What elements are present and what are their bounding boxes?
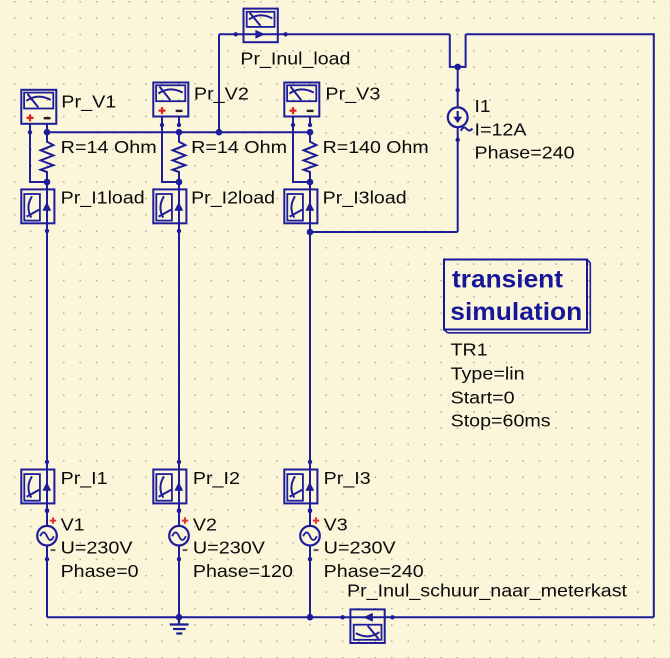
junction node R3 bottom — [307, 179, 314, 186]
current probe Pr_I3load — [284, 180, 317, 234]
resistor R3 zigzag — [304, 132, 317, 182]
svg-text:Pr_I3load: Pr_I3load — [323, 187, 407, 208]
wire bottom bus — [47, 616, 654, 618]
wire top bus from node A to dip — [219, 33, 450, 35]
wire from Pr_I3load to I1 — [310, 231, 458, 233]
current probe Pr_I1load — [21, 180, 54, 234]
svg-text:I=12A: I=12A — [475, 119, 527, 139]
current probe Pr_I2load — [153, 180, 186, 234]
current probe Pr_I2 — [153, 460, 186, 514]
resistor R1 zigzag — [41, 132, 54, 182]
junction node bus1-drop — [216, 129, 223, 136]
svg-text:Pr_I1load: Pr_I1load — [61, 187, 145, 208]
svg-text:V1: V1 — [61, 514, 85, 534]
svg-text:R=14 Ohm: R=14 Ohm — [61, 137, 157, 157]
svg-text:Phase=120: Phase=120 — [193, 561, 293, 581]
svg-text:Start=0: Start=0 — [451, 387, 515, 407]
svg-text:Type=lin: Type=lin — [451, 363, 525, 383]
svg-text:Pr_V2: Pr_V2 — [194, 84, 249, 105]
wire column3 plus lead — [293, 125, 310, 183]
junction node col3-I1 wire — [307, 229, 314, 236]
svg-text:V3: V3 — [324, 514, 348, 534]
svg-text:R=140 Ohm: R=140 Ohm — [323, 137, 429, 157]
svg-text:transient: transient — [452, 265, 564, 293]
svg-text:Pr_Inul_schuur_naar_meterkast: Pr_Inul_schuur_naar_meterkast — [347, 580, 627, 601]
svg-text:Phase=240: Phase=240 — [475, 143, 575, 163]
voltmeter probe Pr_V1 — [21, 90, 56, 135]
wire bus1 horizontal — [47, 131, 310, 133]
wire column1 plus lead — [30, 131, 47, 182]
wire top right to corner — [466, 34, 654, 617]
voltmeter probe Pr_V2 — [153, 83, 188, 128]
junction node R1 bottom — [44, 179, 51, 186]
svg-text:Phase=0: Phase=0 — [61, 561, 139, 581]
junction node bottom bus ground — [176, 614, 183, 621]
svg-text:simulation: simulation — [450, 298, 582, 326]
current source I1 — [448, 88, 473, 142]
svg-text:R=14 Ohm: R=14 Ohm — [191, 137, 287, 157]
svg-text:Pr_V1: Pr_V1 — [61, 92, 116, 113]
ammeter probe Pr_Inul_schuur_naar_meterkast (rotated 180) — [340, 609, 394, 643]
wire column2 main vertical — [178, 182, 180, 617]
svg-text:Pr_I2: Pr_I2 — [193, 468, 240, 489]
wire column1 main vertical — [46, 182, 48, 617]
junction node bus1-col3 — [307, 129, 314, 136]
svg-text:U=230V: U=230V — [324, 538, 396, 558]
svg-text:Phase=240: Phase=240 — [324, 561, 424, 581]
voltage source V3 — [300, 508, 320, 561]
resistor R2 zigzag — [173, 132, 186, 182]
wire I1 column — [457, 67, 459, 232]
svg-text:Pr_V3: Pr_V3 — [325, 84, 380, 105]
junction node bus1-col1 — [44, 129, 51, 136]
svg-text:U=230V: U=230V — [61, 538, 133, 558]
wire column3 main vertical — [309, 182, 311, 617]
ammeter probe Pr_Inul_load — [234, 9, 288, 43]
current probe Pr_I1 — [21, 460, 54, 514]
current probe Pr_I3 — [284, 460, 317, 514]
svg-text:Pr_I1: Pr_I1 — [61, 468, 108, 489]
svg-text:I1: I1 — [475, 96, 491, 116]
junction node R2 bottom — [176, 179, 183, 186]
svg-text:Pr_I3: Pr_I3 — [324, 468, 371, 489]
wire drop from top bus to node bus1 — [218, 34, 220, 132]
svg-text:TR1: TR1 — [451, 340, 488, 360]
wire column2 plus lead — [162, 125, 179, 183]
voltage source V1 — [37, 508, 57, 561]
svg-text:U=230V: U=230V — [193, 538, 265, 558]
svg-text:Pr_Inul_load: Pr_Inul_load — [240, 48, 350, 69]
junction node bottom bus col3 — [307, 614, 314, 621]
svg-text:Stop=60ms: Stop=60ms — [451, 411, 551, 431]
svg-text:V2: V2 — [193, 514, 217, 534]
voltmeter probe Pr_V3 — [284, 83, 319, 128]
junction node dip-I1 — [454, 64, 461, 71]
wire dip left leg — [450, 34, 466, 67]
ground — [170, 617, 189, 633]
svg-text:Pr_I2load: Pr_I2load — [191, 187, 275, 208]
voltage source V2 — [169, 508, 189, 561]
transient simulation box — [444, 260, 590, 333]
junction node bus1-col2 — [176, 129, 183, 136]
